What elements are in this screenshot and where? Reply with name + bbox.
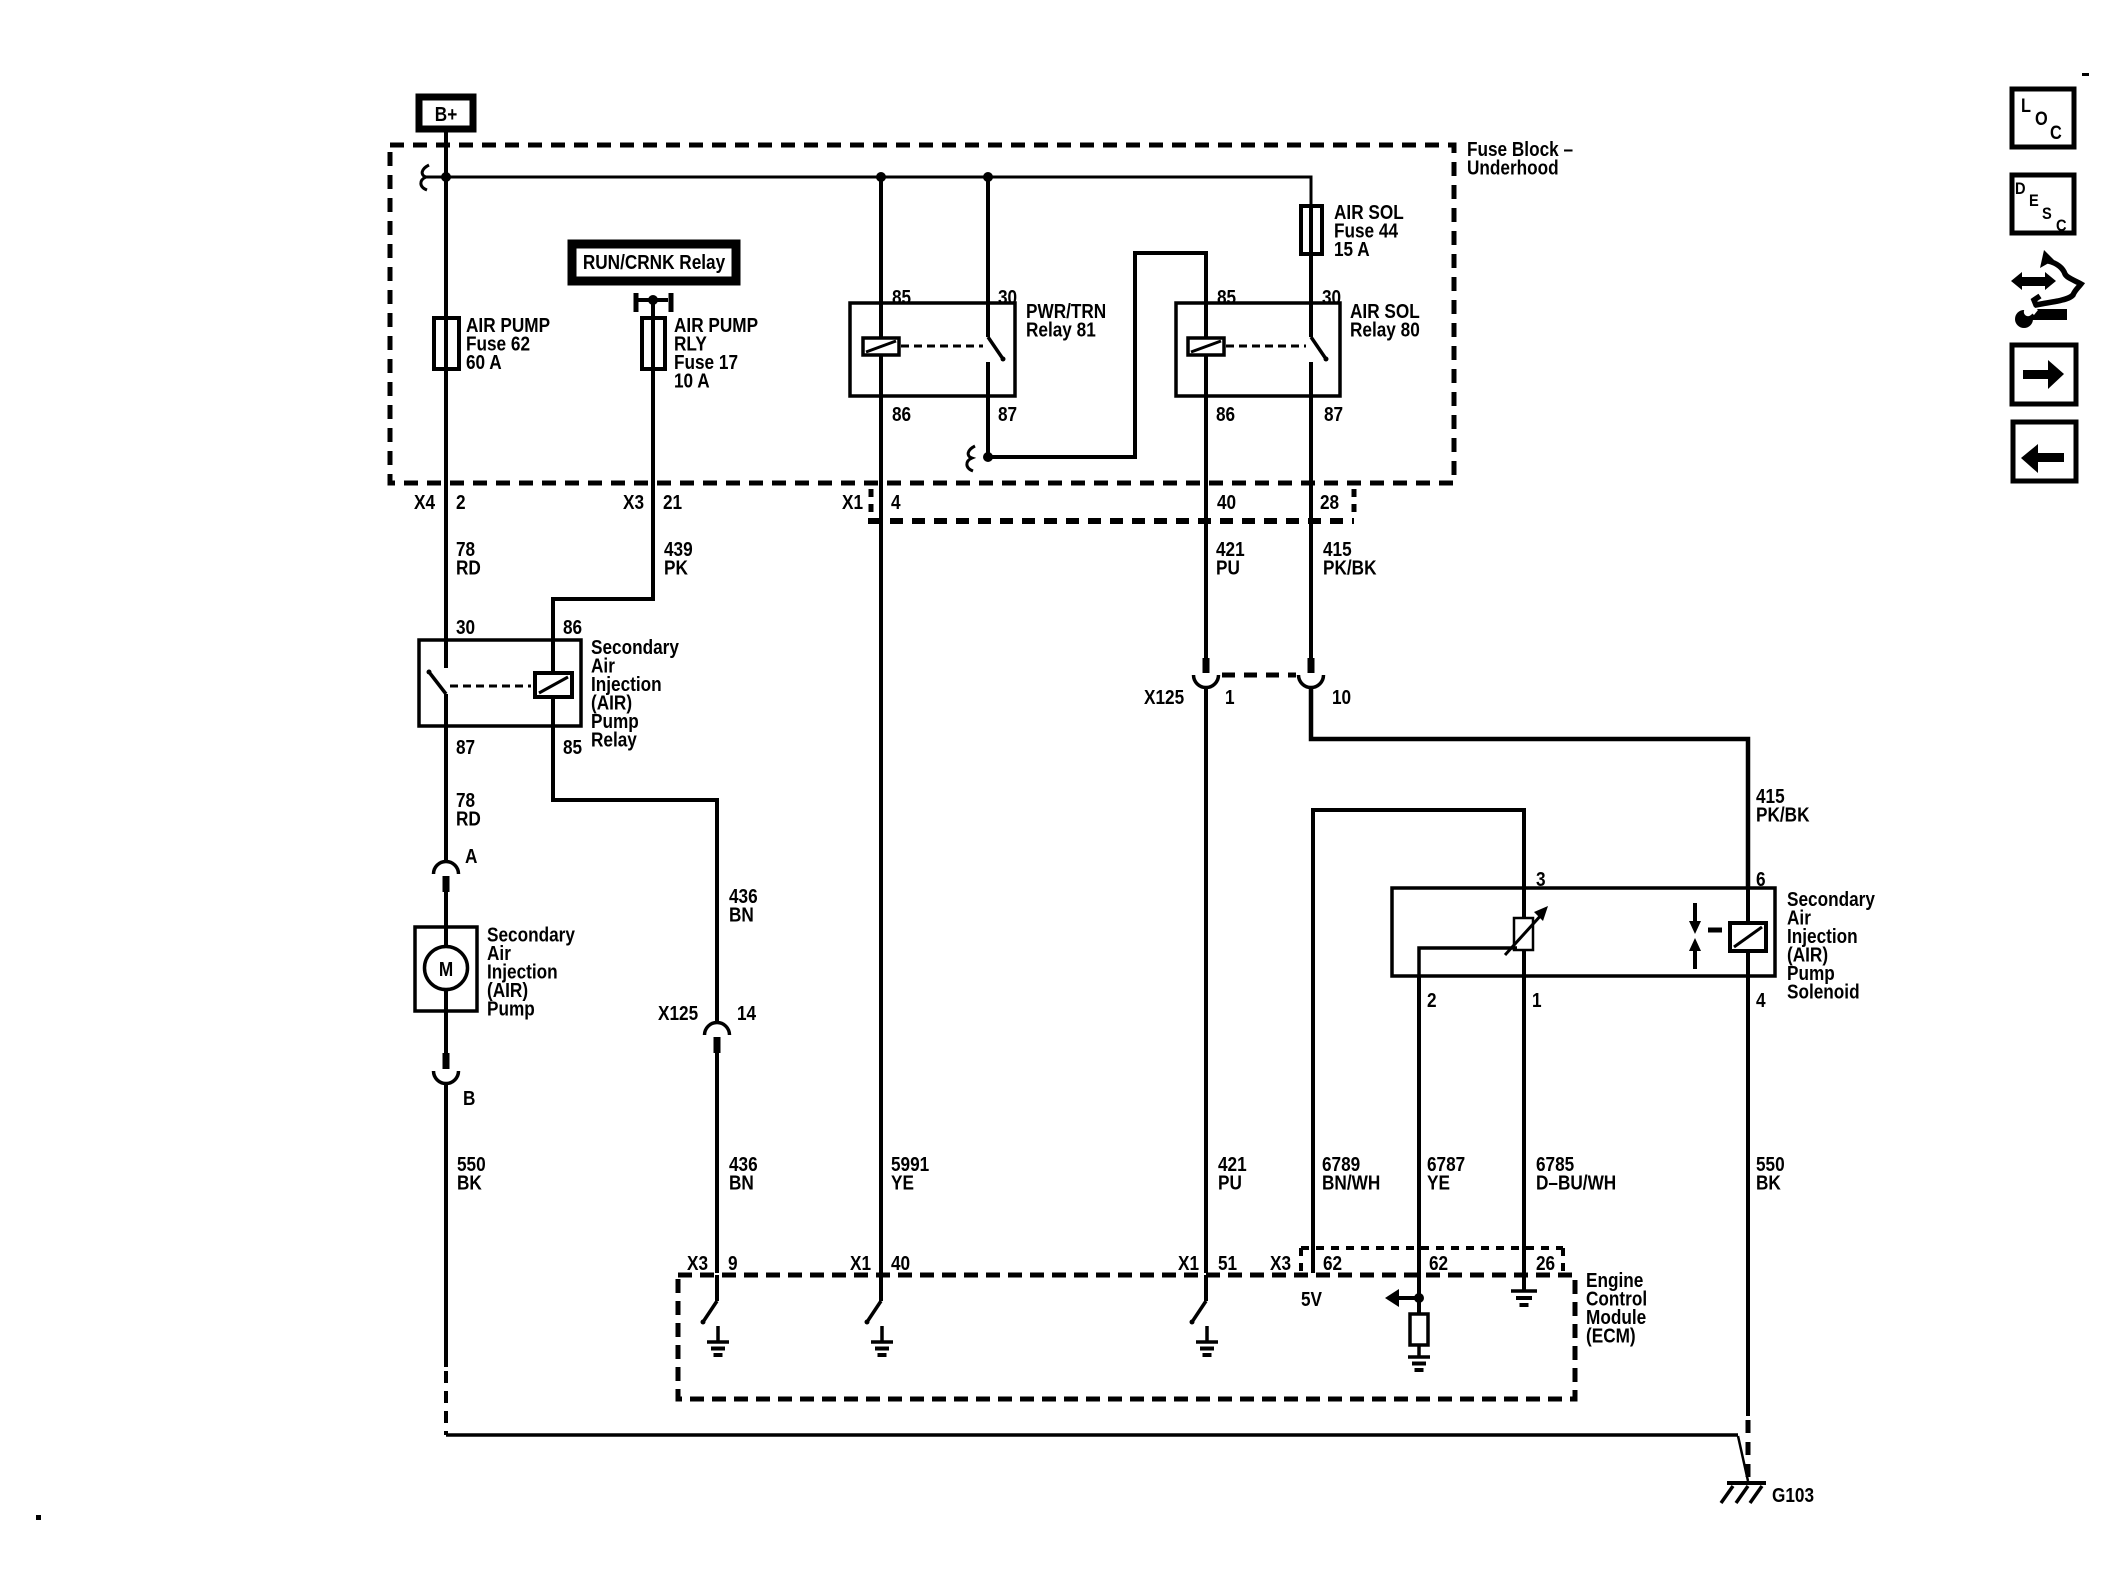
wire label 436 BN upper bbox=[729, 885, 758, 926]
ground inside ECM pin 26 bbox=[1511, 1291, 1537, 1305]
wire RUN/CRNK to fuse 17 bbox=[651, 302, 655, 370]
svg-text:85: 85 bbox=[892, 286, 911, 309]
label Fuse Block - Underhood bbox=[1467, 138, 1573, 179]
label secondary air injection pump solenoid bbox=[1787, 888, 1875, 1003]
connector X125 pin 14 bbox=[658, 1002, 757, 1053]
icon arrow left bbox=[2013, 422, 2076, 481]
node junction 30 feed bbox=[983, 172, 993, 182]
connector X125 pin 10 bbox=[1299, 658, 1352, 708]
relay K secondary air injection pump relay bbox=[419, 616, 582, 759]
svg-text:G103: G103 bbox=[1772, 1484, 1814, 1507]
svg-text:X3: X3 bbox=[1270, 1252, 1291, 1275]
ECM pin labels bbox=[687, 1252, 1555, 1275]
svg-text:YE: YE bbox=[1427, 1171, 1450, 1194]
variable resistor inside solenoid bbox=[1505, 888, 1548, 976]
svg-text:2: 2 bbox=[456, 491, 466, 514]
wire 550 BK left solid bbox=[444, 1083, 448, 1367]
svg-text:Solenoid: Solenoid bbox=[1787, 980, 1860, 1003]
connector B bbox=[434, 1053, 476, 1109]
svg-text:Relay 80: Relay 80 bbox=[1350, 318, 1420, 341]
svg-text:26: 26 bbox=[1536, 1252, 1555, 1275]
node junction 87 bbox=[983, 452, 993, 462]
wire relay81 87 to relay80 85 bbox=[988, 253, 1206, 457]
wire 436 BN lower bbox=[715, 1053, 719, 1273]
svg-text:40: 40 bbox=[1217, 491, 1236, 514]
wire 550 BK dashed drop bbox=[444, 1371, 448, 1435]
wire 6787 YE solenoid pin2 to ECM bbox=[1417, 976, 1421, 1314]
svg-text:X4: X4 bbox=[414, 491, 436, 514]
svg-text:B: B bbox=[463, 1087, 475, 1110]
svg-text:PU: PU bbox=[1216, 556, 1240, 579]
svg-text:60 A: 60 A bbox=[466, 351, 502, 374]
svg-text:E: E bbox=[2029, 192, 2039, 210]
wire label 415 PK/BK upper bbox=[1323, 538, 1377, 579]
wire 421 PU lower bbox=[1204, 687, 1208, 1273]
svg-text:D–BU/WH: D–BU/WH bbox=[1536, 1171, 1616, 1194]
svg-text:X125: X125 bbox=[1144, 686, 1184, 709]
svg-text:RD: RD bbox=[456, 556, 481, 579]
wire 550 BK dashed drop right bbox=[1746, 1420, 1751, 1481]
wire label 78 RD lower bbox=[456, 789, 481, 830]
svg-text:C: C bbox=[2056, 217, 2067, 235]
wire X125 dashed connector link bbox=[1222, 673, 1296, 678]
relay U80 AIR SOL Relay 80 bbox=[1176, 286, 1420, 426]
svg-text:B+: B+ bbox=[435, 103, 458, 126]
connector X125 pin 1 bbox=[1144, 658, 1235, 708]
svg-text:4: 4 bbox=[891, 491, 901, 514]
fuse block - underhood dashed box bbox=[390, 145, 1454, 483]
svg-text:BK: BK bbox=[1756, 1171, 1781, 1194]
wire label 78 RD upper bbox=[456, 538, 481, 579]
connector A bbox=[434, 845, 478, 892]
icon wrench-arrows bbox=[2011, 250, 2081, 328]
svg-text:85: 85 bbox=[563, 736, 582, 759]
svg-text:28: 28 bbox=[1320, 491, 1339, 514]
svg-text:BN: BN bbox=[729, 1171, 754, 1194]
svg-text:86: 86 bbox=[1216, 403, 1235, 426]
wire B+ feed bbox=[444, 129, 448, 640]
svg-text:85: 85 bbox=[1217, 286, 1236, 309]
ground inside ECM below resistor bbox=[1408, 1357, 1430, 1370]
wire label 439 PK bbox=[664, 538, 693, 579]
svg-text:1: 1 bbox=[1532, 989, 1542, 1012]
wire 6785 D-BU/WH solenoid pin1 to ECM bbox=[1522, 976, 1526, 1290]
svg-text:PK: PK bbox=[664, 556, 688, 579]
wire label 6785 D-BU/WH bbox=[1536, 1153, 1616, 1194]
solenoid coil bbox=[1730, 888, 1766, 976]
svg-text:30: 30 bbox=[998, 286, 1017, 309]
hook continuation symbol 87 bbox=[967, 446, 975, 471]
svg-text:Underhood: Underhood bbox=[1467, 156, 1559, 179]
label secondary air injection pump relay bbox=[591, 636, 679, 751]
wire label 6789 BN/WH bbox=[1322, 1153, 1380, 1194]
valve arrows inside solenoid bbox=[1689, 903, 1722, 969]
svg-text:86: 86 bbox=[892, 403, 911, 426]
svg-text:BN: BN bbox=[729, 903, 754, 926]
resistor R inside ECM bbox=[1410, 1314, 1428, 1356]
svg-text:L: L bbox=[2021, 95, 2031, 116]
wire label 421 PU upper bbox=[1216, 538, 1245, 579]
ECM internal switch and ground X1-51 bbox=[1190, 1275, 1219, 1355]
svg-text:14: 14 bbox=[737, 1002, 757, 1025]
svg-text:Relay: Relay bbox=[591, 728, 637, 751]
ECM internal switch and ground X1-40 bbox=[865, 1275, 894, 1355]
svg-text:2: 2 bbox=[1427, 989, 1437, 1012]
wire bus to relay 81 pin 30 bbox=[986, 177, 990, 303]
svg-text:RUN/CRNK Relay: RUN/CRNK Relay bbox=[583, 251, 726, 274]
wire solenoid internal pin 2 bbox=[1419, 948, 1517, 976]
wire top bus bbox=[424, 177, 1311, 206]
svg-text:86: 86 bbox=[563, 616, 582, 639]
wire label 421 PU lower bbox=[1218, 1153, 1247, 1194]
ground G103 bbox=[1721, 1483, 1814, 1506]
svg-text:4: 4 bbox=[1756, 989, 1766, 1012]
svg-text:(ECM): (ECM) bbox=[1586, 1324, 1636, 1347]
svg-text:40: 40 bbox=[891, 1252, 910, 1275]
wire label 415 PK/BK right bbox=[1756, 785, 1810, 826]
svg-text:X1: X1 bbox=[842, 491, 863, 514]
svg-text:BN/WH: BN/WH bbox=[1322, 1171, 1380, 1194]
wire pump to B bbox=[444, 989, 448, 1069]
ECM internal 5V reference arrow bbox=[1385, 1289, 1424, 1307]
relay U81 PWR/TRN Relay 81 bbox=[850, 286, 1106, 426]
label secondary air injection pump bbox=[487, 923, 575, 1020]
svg-text:X1: X1 bbox=[850, 1252, 871, 1275]
svg-text:D: D bbox=[2015, 180, 2026, 198]
wire 439 PK upper bbox=[553, 318, 653, 640]
svg-text:X3: X3 bbox=[687, 1252, 708, 1275]
svg-text:Relay 81: Relay 81 bbox=[1026, 318, 1096, 341]
svg-text:YE: YE bbox=[891, 1171, 914, 1194]
svg-text:30: 30 bbox=[1322, 286, 1341, 309]
solenoid box secondary air injection pump solenoid bbox=[1392, 868, 1775, 1012]
wire 6789 feed horizontal bbox=[1313, 810, 1524, 1273]
svg-text:10 A: 10 A bbox=[674, 369, 710, 392]
svg-text:M: M bbox=[439, 958, 453, 981]
wire label 550 BK right bbox=[1756, 1153, 1785, 1194]
wire 550 BK right solid bbox=[1746, 976, 1750, 1416]
fuse F17 AIR PUMP RLY bbox=[642, 314, 758, 392]
svg-text:6: 6 bbox=[1756, 868, 1766, 891]
svg-text:3: 3 bbox=[1536, 868, 1546, 891]
wire relay80 87 to X125 pin10 bbox=[1309, 396, 1313, 658]
wire bus to relay 81 pin 85 bbox=[879, 177, 883, 303]
svg-text:X3: X3 bbox=[623, 491, 644, 514]
wire label 550 BK left bbox=[457, 1153, 486, 1194]
node bus junction B+ bbox=[441, 172, 451, 182]
wire label 6787 YE bbox=[1427, 1153, 1465, 1194]
wire 415 PK/BK to solenoid pin 6 bbox=[1311, 687, 1748, 888]
svg-text:62: 62 bbox=[1429, 1252, 1448, 1275]
svg-text:PK/BK: PK/BK bbox=[1756, 803, 1810, 826]
wire label 5991 YE bbox=[891, 1153, 929, 1194]
RUN/CRNK Relay label box bbox=[572, 244, 736, 281]
svg-text:C: C bbox=[2050, 122, 2062, 143]
svg-text:9: 9 bbox=[728, 1252, 738, 1275]
node junction 85 feed bbox=[876, 172, 886, 182]
svg-text:BK: BK bbox=[457, 1171, 482, 1194]
svg-text:1: 1 bbox=[1225, 686, 1235, 709]
svg-text:30: 30 bbox=[456, 616, 475, 639]
speck top right bbox=[2082, 73, 2089, 76]
wire relay80 86 to X125 pin1 bbox=[1204, 396, 1208, 658]
svg-text:X125: X125 bbox=[658, 1002, 698, 1025]
svg-text:87: 87 bbox=[998, 403, 1017, 426]
wire label 436 BN lower bbox=[729, 1153, 758, 1194]
svg-text:21: 21 bbox=[663, 491, 682, 514]
svg-text:Pump: Pump bbox=[487, 997, 535, 1020]
fuse F44 AIR SOL bbox=[1301, 201, 1404, 261]
svg-text:O: O bbox=[2035, 108, 2048, 129]
svg-text:S: S bbox=[2042, 205, 2052, 223]
ECM dashed box bbox=[678, 1275, 1575, 1399]
svg-text:10: 10 bbox=[1332, 686, 1351, 709]
svg-text:PU: PU bbox=[1218, 1171, 1242, 1194]
wire bus corner to ground bbox=[1738, 1436, 1748, 1481]
hook continuation symbol left bbox=[421, 165, 429, 190]
svg-text:A: A bbox=[465, 845, 477, 868]
svg-text:87: 87 bbox=[1324, 403, 1343, 426]
svg-text:X1: X1 bbox=[1178, 1252, 1199, 1275]
speck bottom left bbox=[36, 1515, 41, 1520]
icon LOC bbox=[2012, 89, 2074, 147]
wire A to pump bbox=[444, 892, 448, 948]
ECM internal switch and ground X3-9 bbox=[701, 1275, 730, 1355]
label Engine Control Module (ECM) bbox=[1586, 1269, 1647, 1347]
svg-text:RD: RD bbox=[456, 807, 481, 830]
svg-text:5V: 5V bbox=[1301, 1288, 1323, 1311]
svg-text:87: 87 bbox=[456, 736, 475, 759]
icon arrow right bbox=[2012, 345, 2076, 404]
icon DESC bbox=[2012, 175, 2074, 235]
svg-text:62: 62 bbox=[1323, 1252, 1342, 1275]
wire 5991 YE relay81 86 to ECM bbox=[879, 396, 883, 1273]
wire fuse 44 to relay 80 pin30 bbox=[1309, 204, 1313, 303]
motor M secondary air injection pump bbox=[415, 927, 477, 1011]
connector X1 fuse block exits bbox=[414, 489, 1354, 521]
svg-text:15 A: 15 A bbox=[1334, 238, 1370, 261]
wire bottom ground bus bbox=[446, 1433, 1738, 1437]
RUN/CRNK relay output terminal bracket bbox=[636, 293, 671, 312]
svg-text:51: 51 bbox=[1218, 1252, 1237, 1275]
battery terminal B+ bbox=[419, 97, 473, 129]
wire 78 RD lower bbox=[444, 726, 448, 862]
svg-text:PK/BK: PK/BK bbox=[1323, 556, 1377, 579]
connector X3 ECM dotted box bbox=[1301, 1248, 1563, 1273]
wire relay 85 to X125 pin14 bbox=[553, 726, 717, 1022]
fuse F62 AIR PUMP bbox=[434, 314, 550, 374]
